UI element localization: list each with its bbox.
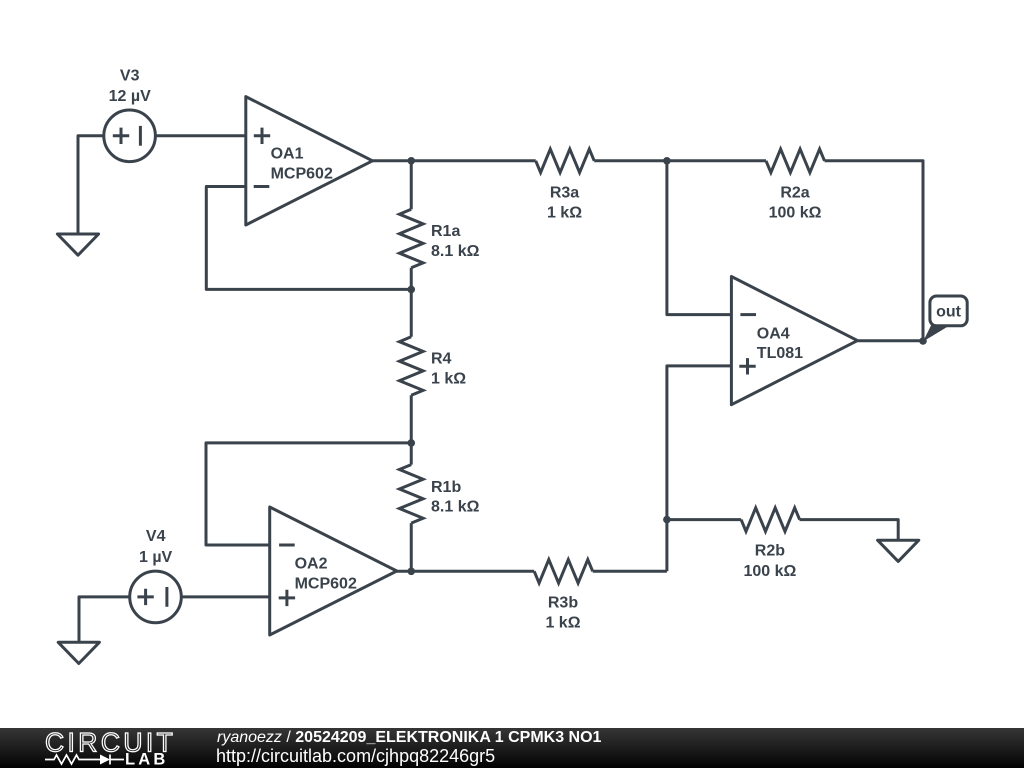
svg-text:R2a: R2a bbox=[780, 185, 809, 202]
svg-text:V4: V4 bbox=[146, 528, 166, 545]
svg-text:TL081: TL081 bbox=[757, 345, 803, 362]
svg-text:OA4: OA4 bbox=[757, 325, 790, 342]
svg-text:R1b: R1b bbox=[431, 479, 461, 496]
svg-text:OA1: OA1 bbox=[271, 146, 304, 163]
svg-text:out: out bbox=[936, 304, 962, 321]
svg-text:MCP602: MCP602 bbox=[295, 575, 357, 592]
svg-text:1 kΩ: 1 kΩ bbox=[545, 614, 580, 631]
svg-text:R2b: R2b bbox=[755, 543, 785, 560]
svg-text:8.1 kΩ: 8.1 kΩ bbox=[431, 243, 480, 260]
svg-text:1 µV: 1 µV bbox=[139, 549, 173, 566]
svg-text:1 kΩ: 1 kΩ bbox=[431, 370, 466, 387]
svg-text:MCP602: MCP602 bbox=[271, 165, 333, 182]
svg-text:LAB: LAB bbox=[125, 751, 169, 768]
svg-text:12 µV: 12 µV bbox=[109, 88, 151, 105]
svg-text:R1a: R1a bbox=[431, 223, 460, 240]
svg-text:R3a: R3a bbox=[550, 185, 579, 202]
svg-text:R4: R4 bbox=[431, 351, 452, 368]
svg-text:100 kΩ: 100 kΩ bbox=[769, 204, 822, 221]
svg-text:V3: V3 bbox=[120, 68, 140, 85]
svg-text:100 kΩ: 100 kΩ bbox=[743, 563, 796, 580]
svg-text:8.1 kΩ: 8.1 kΩ bbox=[431, 499, 480, 516]
svg-text:1 kΩ: 1 kΩ bbox=[547, 204, 582, 221]
svg-text:R3b: R3b bbox=[548, 595, 578, 612]
svg-text:OA2: OA2 bbox=[295, 556, 328, 573]
